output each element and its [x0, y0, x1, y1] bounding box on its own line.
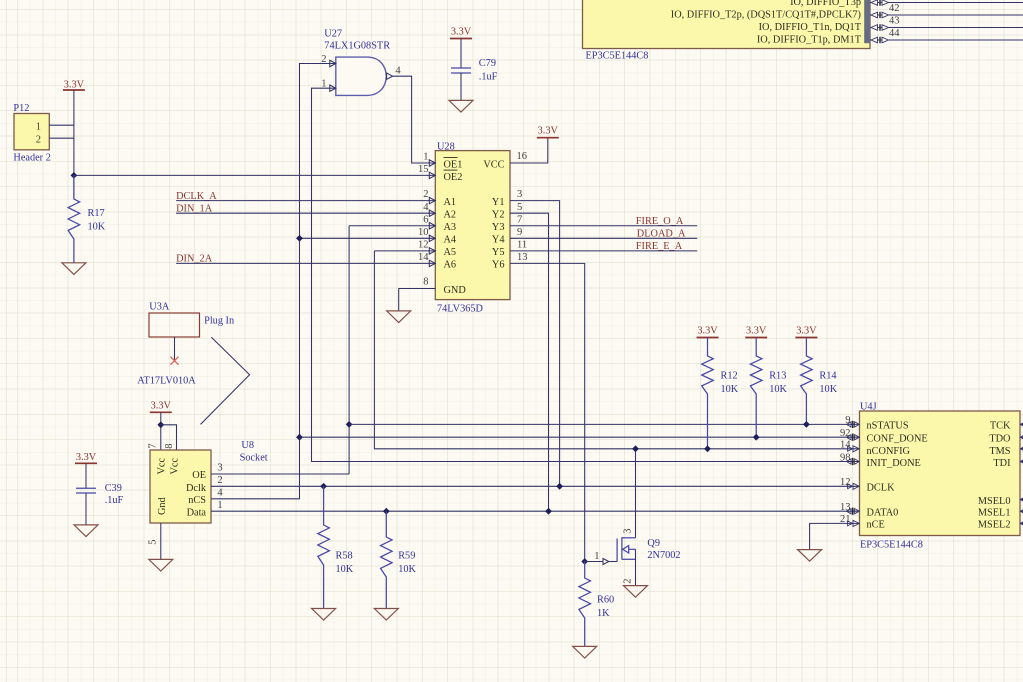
power 3.3V (R14)	[795, 326, 817, 338]
no-ERC cross on U3A pin	[171, 357, 179, 365]
wire nSTATUS horizontal	[349, 423, 859, 425]
svg-text:Y1: Y1	[492, 197, 505, 208]
svg-text:IO, DIFFIO_T1n, DQ1T: IO, DIFFIO_T1n, DQ1T	[759, 22, 862, 33]
net label DCLK_A	[176, 191, 435, 202]
svg-text:3.3V: 3.3V	[697, 326, 718, 337]
svg-text:3: 3	[517, 189, 522, 200]
U4J pin 9	[845, 415, 859, 428]
svg-text:14: 14	[418, 252, 429, 263]
wire A5 from vertical	[374, 250, 435, 252]
U8 pin 8 number	[164, 444, 175, 449]
svg-text:98: 98	[840, 452, 851, 463]
svg-text:10K: 10K	[769, 384, 787, 395]
svg-text:12: 12	[840, 477, 851, 488]
svg-text:C39: C39	[105, 483, 122, 494]
net label FIRE_O_A + wire Y3	[510, 216, 697, 227]
svg-text:92: 92	[840, 428, 851, 439]
U28 pin 6	[423, 214, 435, 229]
svg-text:GND: GND	[444, 285, 467, 296]
svg-text:4: 4	[217, 487, 223, 498]
svg-text:TCK: TCK	[990, 421, 1011, 432]
svg-text:74LX1G08STR: 74LX1G08STR	[324, 41, 390, 52]
svg-text:MSEL1: MSEL1	[978, 508, 1011, 519]
svg-text:10: 10	[418, 227, 429, 238]
junction Q9 gate / Y6 / R60	[581, 558, 588, 565]
U8 pin 7 number	[148, 444, 159, 449]
svg-text:1: 1	[36, 122, 41, 133]
svg-text:12: 12	[418, 240, 429, 251]
svg-text:6: 6	[423, 214, 428, 225]
svg-text:3: 3	[623, 529, 634, 534]
svg-text:U3A: U3A	[149, 302, 170, 313]
junction A4	[296, 235, 303, 242]
U4J pin names right	[978, 421, 1011, 531]
power 3.3V (P12)	[63, 80, 85, 91]
IC U28 74LV365D body	[435, 141, 510, 314]
U28 pin 13 (Y6)	[517, 252, 528, 263]
wire P12 pin2	[49, 137, 74, 139]
svg-text:Q9: Q9	[647, 538, 660, 549]
U28 pin names right	[483, 159, 504, 270]
svg-text:OE2: OE2	[444, 172, 463, 183]
svg-text:2: 2	[423, 189, 428, 200]
U4J pin 14	[840, 440, 859, 452]
svg-text:Data: Data	[187, 508, 207, 519]
U28 pin 9 (Y4)	[517, 227, 522, 238]
svg-text:74LV365D: 74LV365D	[437, 304, 484, 315]
capacitor C39 .1uF	[85, 463, 87, 488]
svg-text:.1uF: .1uF	[479, 72, 498, 83]
wire IO row 3	[870, 24, 1023, 30]
wire VCC to 3.3V	[510, 138, 548, 163]
svg-text:P12: P12	[13, 103, 29, 114]
svg-text:R58: R58	[336, 551, 353, 562]
junction Q9 drain / nCONFIG	[632, 445, 639, 452]
svg-text:nCONFIG: nCONFIG	[867, 446, 911, 457]
junction R14/nSTATUS	[803, 421, 810, 428]
svg-text:C79: C79	[479, 58, 496, 69]
svg-text:A2: A2	[444, 209, 457, 220]
svg-text:10K: 10K	[88, 222, 106, 233]
svg-text:2: 2	[623, 579, 634, 584]
U28 pin 4	[423, 202, 435, 217]
svg-text:R60: R60	[597, 595, 614, 606]
svg-text:11: 11	[517, 239, 527, 250]
U4J pin names left	[867, 421, 928, 531]
wire U27 in2 vertical (net to A4/CONF_DONE/nCS)	[211, 64, 336, 499]
ground under R60	[573, 646, 597, 658]
wire A5-nCONFIG vertical	[374, 251, 859, 449]
resistor R58	[318, 486, 330, 608]
ground under nCE	[798, 550, 822, 562]
component U3A AT17LV010A outline	[137, 302, 234, 387]
svg-text:nCE: nCE	[867, 520, 885, 531]
net label FIRE_E_A + wire Y5	[510, 241, 697, 252]
svg-text:3.3V: 3.3V	[76, 452, 97, 463]
ground under R17	[62, 263, 86, 275]
wire net to U28 OE2	[74, 174, 435, 176]
svg-text:R17: R17	[88, 208, 105, 219]
junction nSTATUS vertical	[346, 421, 353, 428]
wire U28 GND pin	[399, 289, 436, 311]
U28 pin 11 (Y5)	[517, 239, 527, 250]
svg-text:10K: 10K	[819, 384, 837, 395]
IC U4J EP3C5E144C8 body	[860, 402, 1021, 551]
svg-text:U28: U28	[437, 141, 455, 152]
svg-text:1: 1	[594, 551, 599, 562]
svg-text:Socket: Socket	[240, 452, 268, 463]
net label DLOAD_A + wire Y4	[510, 229, 697, 240]
net label DIN_1A	[176, 204, 435, 215]
svg-text:3: 3	[217, 463, 222, 474]
U28 pin 5 (Y2)	[517, 202, 522, 213]
Q9 pin 3 number + drain wire	[623, 449, 636, 538]
power 3.3V (U28 VCC)	[537, 126, 559, 138]
svg-text:Vcc: Vcc	[169, 457, 180, 474]
U3A pin stub	[174, 337, 176, 361]
svg-text:U27: U27	[324, 29, 342, 40]
svg-text:TMS: TMS	[989, 446, 1010, 457]
ground under R58	[312, 609, 336, 621]
IC top gray pin bar	[864, 0, 870, 43]
wire U8 Dclk / DCLK net	[211, 485, 860, 487]
svg-text:5: 5	[148, 540, 159, 545]
U4J right pin TDO	[1020, 434, 1023, 440]
svg-text:3.3V: 3.3V	[538, 126, 559, 137]
svg-text:3.3V: 3.3V	[746, 326, 767, 337]
U28 pin 16 (VCC)	[517, 151, 528, 162]
svg-text:1: 1	[423, 152, 428, 163]
U28 pin 3 (Y1)	[517, 189, 522, 200]
power 3.3V (U8)	[150, 401, 172, 413]
net label DIN_2A	[176, 254, 435, 265]
U28 pin 14	[418, 252, 435, 267]
svg-text:14: 14	[840, 440, 851, 451]
wire U8 OE net	[211, 473, 349, 475]
svg-text:2N7002: 2N7002	[647, 550, 680, 561]
U4J right pin MSEL1	[1020, 508, 1023, 514]
power 3.3V (R13)	[745, 326, 767, 338]
U8 pin names right	[186, 470, 207, 518]
capacitor C79 .1uF	[460, 39, 462, 69]
power 3.3V (R12)	[697, 326, 719, 338]
IC top pin 42	[889, 3, 900, 14]
svg-text:nSTATUS: nSTATUS	[867, 421, 909, 432]
U4J pin 12	[840, 477, 859, 489]
junction U8 3.3V	[157, 421, 164, 428]
svg-text:3.3V: 3.3V	[796, 326, 817, 337]
svg-text:U8: U8	[241, 440, 254, 451]
IC U8 socket body	[150, 440, 268, 523]
wire IO row 1	[870, 0, 1023, 6]
svg-text:10K: 10K	[721, 384, 739, 395]
U4J pin 92	[840, 428, 859, 441]
AND gate U27 74LX1G08STR	[324, 29, 390, 96]
junction Y2/DATA	[545, 508, 552, 515]
svg-text:8: 8	[423, 277, 428, 288]
wire A4	[300, 237, 436, 239]
power 3.3V (C39)	[75, 452, 97, 464]
plug-in chevron arrow	[201, 337, 250, 424]
resistor R14	[801, 338, 813, 425]
svg-text:R12: R12	[721, 371, 738, 382]
power 3.3V (C79)	[450, 27, 472, 39]
svg-text:A5: A5	[444, 247, 457, 258]
wire U8 pin8 loop	[161, 425, 177, 450]
U4J right pin MSEL0	[1020, 497, 1023, 503]
svg-text:U4J: U4J	[860, 402, 877, 413]
IC top pin 43	[889, 15, 900, 26]
resistor R60	[579, 562, 591, 647]
U8 pin 4 (nCS)	[217, 487, 223, 498]
U4J right pin TCK	[1020, 422, 1023, 428]
svg-text:AT17LV010A: AT17LV010A	[137, 375, 196, 386]
wire Y1 to DCLK net	[510, 201, 560, 487]
U28 pin 10	[418, 227, 435, 242]
svg-text:.1uF: .1uF	[105, 495, 124, 506]
U4J right pin MSEL2	[1020, 521, 1023, 527]
svg-text:R14: R14	[819, 371, 836, 382]
wire P12 pin1	[49, 124, 74, 126]
svg-text:IO, DIFFIO_T1p, DM1T: IO, DIFFIO_T1p, DM1T	[757, 35, 862, 46]
wire U8 Data / DATA0 net	[211, 510, 860, 512]
resistor R12	[702, 338, 714, 449]
svg-text:Y4: Y4	[492, 235, 505, 246]
U8 pin 2 (Dclk)	[217, 475, 222, 486]
svg-text:VCC: VCC	[483, 159, 504, 170]
svg-text:INIT_DONE: INIT_DONE	[867, 458, 921, 469]
svg-text:MSEL2: MSEL2	[978, 520, 1011, 531]
Q9 pin 1 number	[594, 551, 599, 562]
svg-text:43: 43	[889, 15, 900, 26]
wire U27 output to OE1	[393, 76, 436, 163]
connector P12	[13, 103, 50, 164]
svg-text:3.3V: 3.3V	[451, 27, 472, 38]
junction R13/CONF_DONE	[753, 434, 760, 441]
junction R59/DATA	[383, 508, 390, 515]
Q9 pin 2 number + source wire	[623, 549, 636, 585]
wire Y6 to Q9 gate / R60	[510, 263, 585, 561]
wire A3 from vertical	[349, 225, 435, 227]
svg-text:10K: 10K	[398, 564, 416, 575]
svg-text:Vcc: Vcc	[157, 457, 168, 474]
svg-text:Y6: Y6	[492, 260, 505, 271]
svg-text:10K: 10K	[336, 564, 354, 575]
ground under C79	[449, 100, 473, 112]
svg-text:MSEL0: MSEL0	[978, 496, 1011, 507]
U28 pin 1	[423, 152, 435, 167]
U4J pin 21	[840, 514, 859, 526]
wire U8 pin5 to ground	[160, 523, 162, 559]
transistor Q9 2N7002	[585, 537, 681, 564]
wire U27 in1 vertical (net to INIT_DONE)	[312, 88, 860, 461]
svg-text:15: 15	[418, 164, 429, 175]
svg-text:TDO: TDO	[989, 434, 1011, 445]
svg-text:A3: A3	[444, 222, 457, 233]
svg-text:Y2: Y2	[492, 209, 505, 220]
U28 pin 2	[423, 189, 435, 204]
junction CONF_DONE vertical	[296, 434, 303, 441]
U27 pin 2 (input top)	[321, 54, 336, 67]
U8 pin 3 (OE)	[217, 463, 222, 474]
svg-text:Y5: Y5	[492, 247, 505, 258]
U4J pin 98	[840, 452, 859, 465]
svg-text:2: 2	[217, 475, 222, 486]
U28 pin 15	[418, 164, 435, 179]
ground under Q9	[624, 586, 648, 598]
svg-text:2: 2	[36, 135, 41, 146]
U28 pin 8 (GND)	[423, 277, 428, 288]
svg-text:42: 42	[889, 3, 900, 14]
ground under U28 GND	[387, 311, 411, 323]
IC top pin names	[671, 0, 862, 46]
U28 pin 7 (Y3)	[517, 214, 522, 225]
U4J pin 13	[840, 502, 859, 515]
svg-text:1K: 1K	[597, 608, 610, 619]
svg-text:DCLK: DCLK	[867, 483, 896, 494]
svg-text:5: 5	[517, 202, 522, 213]
svg-text:CONF_DONE: CONF_DONE	[867, 434, 928, 445]
wire 3.3V to U8 pin7	[160, 412, 162, 450]
svg-text:EP3C5E144C8: EP3C5E144C8	[860, 540, 923, 551]
wire IO row 2	[870, 12, 1023, 18]
ground under C39	[74, 525, 98, 537]
wire IO row 4	[870, 37, 1023, 43]
U28 pin 12	[418, 240, 435, 255]
wire U4J nCE to ground	[810, 523, 860, 549]
svg-text:Plug In: Plug In	[204, 316, 234, 327]
IC top pin 44	[889, 28, 900, 39]
svg-text:3.3V: 3.3V	[151, 401, 172, 412]
U4J right pin TDI	[1020, 459, 1023, 465]
resistor R59	[381, 511, 393, 608]
svg-text:13: 13	[517, 252, 528, 263]
U27 pin 4 (output)	[387, 66, 402, 80]
wire Y2 to DATA net	[510, 213, 549, 511]
ground under U8	[149, 559, 173, 571]
svg-text:Dclk: Dclk	[186, 483, 207, 494]
svg-text:IO, DIFFIO_T2p, (DQS1T/CQ1T#,D: IO, DIFFIO_T2p, (DQS1T/CQ1T#,DPCLK7)	[671, 10, 861, 21]
svg-text:16: 16	[517, 151, 528, 162]
resistor R17	[68, 175, 80, 262]
svg-text:A1: A1	[444, 197, 457, 208]
IC EP3C5E144C8 (top, partial) body	[583, 0, 871, 49]
junction R58/DCLK	[320, 483, 327, 490]
U8 pin 1 (Data)	[217, 500, 222, 511]
svg-text:A6: A6	[444, 260, 457, 271]
svg-text:OE1: OE1	[444, 159, 463, 170]
svg-text:44: 44	[889, 28, 900, 39]
svg-text:3.3V: 3.3V	[64, 80, 85, 91]
svg-text:9: 9	[517, 227, 522, 238]
ground under R59	[374, 609, 398, 621]
svg-text:TDI: TDI	[993, 458, 1011, 469]
svg-text:1: 1	[217, 500, 222, 511]
svg-text:IO, DIFFIO_T3p: IO, DIFFIO_T3p	[790, 0, 861, 8]
svg-text:7: 7	[517, 214, 522, 225]
junction P12/R17/OE2	[71, 172, 78, 179]
svg-text:13: 13	[840, 502, 851, 513]
svg-text:7: 7	[148, 444, 159, 449]
junction Y1/DCLK	[556, 483, 563, 490]
svg-text:EP3C5E144C8: EP3C5E144C8	[586, 51, 649, 62]
svg-text:Y3: Y3	[492, 222, 505, 233]
junction R12/nCONFIG	[704, 445, 711, 452]
U8 pin 5 number	[148, 540, 159, 545]
svg-text:1: 1	[321, 78, 326, 89]
U28 pin names left	[444, 158, 467, 296]
wire A3-OE-nSTATUS vertical	[348, 226, 350, 474]
U4J right pin TMS	[1020, 446, 1023, 452]
svg-text:4: 4	[423, 202, 429, 213]
svg-text:8: 8	[164, 444, 175, 449]
svg-text:Gnd: Gnd	[157, 496, 168, 515]
svg-text:4: 4	[395, 66, 401, 77]
svg-text:A4: A4	[444, 235, 457, 246]
svg-text:DATA0: DATA0	[867, 508, 899, 519]
wire 3.3V to R17 vertical	[73, 90, 75, 199]
resistor R13	[750, 338, 762, 438]
svg-text:nCS: nCS	[188, 495, 206, 506]
svg-text:OE: OE	[192, 470, 206, 481]
U27 pin 1 (input bottom)	[321, 78, 336, 91]
svg-text:Header 2: Header 2	[13, 153, 50, 164]
svg-text:R59: R59	[398, 551, 415, 562]
svg-text:R13: R13	[769, 371, 786, 382]
wire CONF_DONE horizontal	[300, 436, 860, 438]
